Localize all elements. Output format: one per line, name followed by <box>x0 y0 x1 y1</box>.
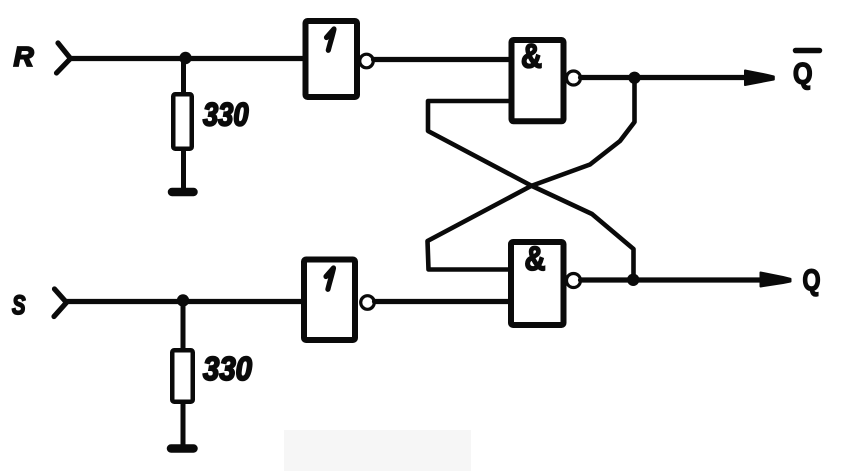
wire U3 output to NAND U4 input 2 <box>375 299 512 304</box>
svg-text:330: 330 <box>203 97 249 133</box>
svg-text:&: & <box>525 240 546 278</box>
label 1 (U1) <box>327 29 335 50</box>
resistor R2 body <box>172 350 193 402</box>
arrowhead Q output <box>761 273 791 287</box>
wire resistor R1 to ground <box>181 149 186 190</box>
wire S input to inverter U3 <box>67 299 303 304</box>
svg-text:S: S <box>12 290 26 320</box>
junction node Q <box>627 274 639 286</box>
label 1 (U3) <box>326 268 334 289</box>
svg-text:Q: Q <box>793 58 813 91</box>
wire U2 output to Qbar arrow <box>581 75 749 80</box>
NAND U2 output bubble <box>567 71 581 85</box>
inverter U1 output bubble <box>360 54 374 68</box>
scan artifact gray patch <box>284 430 471 471</box>
wire junction to resistor R2 <box>181 301 186 351</box>
wire junction to resistor R1 <box>181 58 186 94</box>
svg-text:Q: Q <box>803 264 821 297</box>
wire resistor R2 to ground <box>181 402 186 446</box>
junction node at S wire <box>177 294 189 306</box>
wire feedback from Q junction to NAND U2 input 2 <box>428 101 634 281</box>
junction node Qbar <box>628 72 640 84</box>
inverter U3 output bubble <box>361 296 375 310</box>
wire feedback from Qbar junction to NAND U4 input 1 <box>428 78 635 270</box>
input connector chevron R <box>57 43 71 73</box>
wire U4 output to Q arrow <box>581 277 763 282</box>
input connector chevron S <box>54 289 67 317</box>
ground (bottom) <box>171 444 194 453</box>
inverter U3 box <box>304 260 355 341</box>
ground (top) <box>172 188 194 197</box>
svg-text:&: & <box>521 38 542 76</box>
junction node at R wire <box>179 52 191 64</box>
arrowhead Qbar output <box>745 71 774 86</box>
NAND gate U2 box <box>512 40 564 121</box>
svg-text:330: 330 <box>203 350 253 387</box>
node Qbar overline <box>796 48 820 54</box>
wire U1 output to NAND U2 input 1 <box>374 57 512 62</box>
inverter U1 box <box>306 21 358 97</box>
resistor R1 body <box>173 94 192 149</box>
svg-text:R: R <box>14 41 35 72</box>
NAND gate U4 box <box>511 242 564 325</box>
wire R input to inverter U1 <box>71 56 304 61</box>
NAND U4 output bubble <box>567 274 581 288</box>
